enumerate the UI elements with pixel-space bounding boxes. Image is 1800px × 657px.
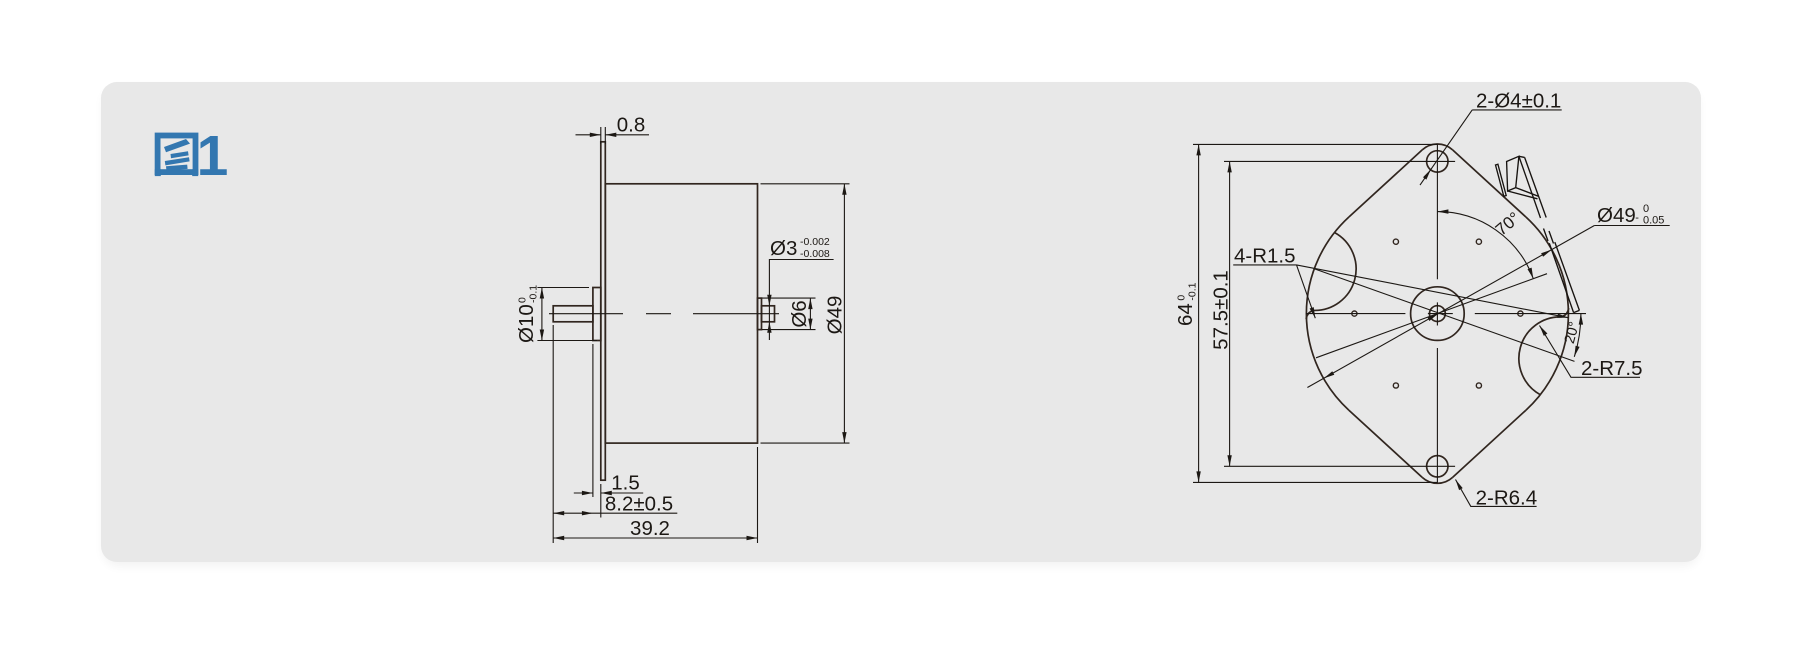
notch R7.5 right (1519, 317, 1562, 395)
2-D4 leader (1420, 110, 1562, 185)
tab break dashes (1544, 229, 1554, 244)
dim D6: dimension line (809, 298, 811, 330)
mounting hole top D4 (1427, 151, 1448, 172)
svg-text:-0.008: -0.008 (800, 248, 830, 260)
center boss circle D10 (1411, 287, 1465, 341)
svg-text:-0.002: -0.002 (800, 236, 830, 248)
svg-text:1: 1 (197, 124, 229, 188)
bottom extension lines (553, 325, 757, 543)
D49 lower crossing arrow (1324, 371, 1335, 378)
tab clip finger (1496, 164, 1507, 196)
background card (101, 82, 1701, 562)
dim D10: extension lines (537, 288, 597, 341)
D49 diameter leader line (1307, 226, 1594, 388)
1.5 arrows (outside) (582, 491, 593, 495)
front pilot boss D10 (593, 288, 601, 341)
svg-text:Ø10: Ø10 (515, 304, 538, 343)
top ear arc R6.4 (1422, 144, 1452, 150)
text D10 0/-0.1 (rotated) (515, 285, 540, 343)
svg-text:Ø3: Ø3 (770, 237, 797, 260)
tab right edge (lower) (1555, 242, 1580, 310)
vertical center line (1436, 144, 1438, 483)
dim 57.5 extension lines (1224, 161, 1455, 466)
20deg arc arrows (1579, 314, 1583, 325)
dim D3 rear: leader and dimension line (769, 260, 833, 341)
svg-text:-0.1: -0.1 (1187, 282, 1199, 300)
dim D6: extension lines (762, 298, 816, 330)
shaft circle D3 (1430, 306, 1446, 322)
axis center line (549, 313, 779, 315)
tab bottom cap (1574, 310, 1580, 312)
radial line 70deg edge (through center) (1316, 274, 1547, 358)
2-R6.4 arrow (1456, 480, 1463, 491)
svg-text:-: - (1635, 212, 1639, 224)
svg-text:2-Ø4±0.1: 2-Ø4±0.1 (1476, 90, 1561, 113)
svg-text:Ø49: Ø49 (1597, 204, 1636, 227)
flange tangent edge bottom-right (1453, 410, 1526, 477)
body circle D49 right arc (1526, 217, 1569, 410)
dim 0.8: extension lines above flange (601, 127, 606, 144)
tab clip U plate (1507, 156, 1519, 191)
0.8 arrows (590, 133, 601, 137)
svg-text:64: 64 (1174, 303, 1197, 326)
bottom ear arc R6.4 (1422, 477, 1452, 483)
rivet dot upper-right (1476, 239, 1481, 244)
R1.5 curl at left notch end (1306, 310, 1313, 319)
图 enclosure box (158, 136, 196, 173)
dim 64 extension lines (1193, 144, 1437, 482)
rivet dot upper-left (1393, 239, 1398, 244)
svg-text:8.2±0.5: 8.2±0.5 (605, 493, 673, 516)
D3 arrows (outside) (767, 295, 771, 306)
70deg dimension arc (1437, 212, 1533, 279)
D10 arrows (540, 288, 544, 299)
side view dimension texts (515, 114, 847, 541)
notch axis line 20deg (through center) (1314, 269, 1575, 362)
svg-text:Ø49: Ø49 (824, 296, 847, 335)
arrowheads, side view (540, 133, 847, 541)
horizontal center line (1306, 313, 1586, 315)
flange tangent edge top-left (1349, 150, 1422, 217)
2-R7.5 leader (1540, 326, 1641, 378)
motor body rectangle (605, 184, 757, 443)
svg-text:2-R7.5: 2-R7.5 (1581, 357, 1643, 380)
svg-text:4-R1.5: 4-R1.5 (1234, 245, 1296, 268)
D49 text underline (1594, 225, 1669, 227)
dim 57.5 dimension line (1229, 161, 1231, 466)
57.5 arrows (1227, 161, 1231, 172)
70deg arc arrows (1437, 209, 1448, 213)
dim 1.5: dimension line (574, 492, 643, 494)
rear shaft stub D3 (762, 306, 775, 322)
tab left edge (upper) (1519, 156, 1541, 218)
front output shaft D3 (553, 306, 593, 322)
dim D49 side: extension lines (761, 184, 850, 443)
4-R1.5 long branch arrow (1557, 314, 1568, 318)
R1.5 curl at right notch end (1562, 308, 1569, 317)
2-R6.4 leader (1456, 480, 1537, 507)
mounting hole bottom D4 (1427, 456, 1448, 477)
body circle D49 left arc (1306, 217, 1349, 410)
svg-text:-0.1: -0.1 (528, 285, 540, 303)
8.2 arrows (553, 511, 564, 515)
rivet dot left (1352, 311, 1357, 316)
dim D10: dimension line (541, 288, 543, 341)
D49 side arrows (842, 184, 846, 195)
svg-text:0.05: 0.05 (1643, 215, 1664, 227)
svg-text:0.8: 0.8 (617, 114, 646, 137)
D49 upper crossing arrow (1541, 250, 1552, 257)
svg-text:2-R6.4: 2-R6.4 (1476, 487, 1538, 510)
tab right edge (upper) (1525, 157, 1547, 217)
text 64 0/-0.1 (rotated) (1174, 282, 1199, 326)
dim 39.2: dimension line (553, 537, 757, 539)
figure label 图1 (blue) (155, 124, 229, 188)
notch R7.5 left (1313, 233, 1356, 311)
terminal tab assembly (1496, 156, 1580, 312)
39.2 arrows (553, 536, 564, 540)
svg-text:0: 0 (1643, 203, 1649, 215)
D6 arrows (808, 298, 812, 309)
svg-text:39.2: 39.2 (630, 517, 670, 540)
flange tangent edge top-right (1453, 150, 1526, 217)
flange tangent edge bottom-left (1349, 410, 1422, 477)
rivet dot lower-right (1476, 383, 1481, 388)
dim D49 side: dimension line (843, 184, 845, 443)
dim 0.8: dimension line (576, 134, 650, 136)
front view dimension texts (1174, 90, 1664, 510)
mounting flange plate (thin) (601, 142, 606, 480)
图 inner strokes (164, 139, 190, 171)
D49 line arrow at center (1427, 314, 1438, 321)
svg-text:57.5±0.1: 57.5±0.1 (1210, 270, 1233, 350)
4-R1.5 steep branch arrow (1310, 307, 1316, 318)
2-R7.5 arrow (1540, 326, 1548, 336)
图 bottom feet (155, 169, 161, 176)
tab left edge (lower) (1549, 243, 1573, 312)
svg-text:Ø6: Ø6 (788, 300, 811, 327)
arrowheads, front view (1196, 144, 1583, 490)
dim 8.2: dimension line (553, 512, 677, 514)
tab clip bottom bar (1508, 188, 1539, 199)
dim 64 dimension line (1198, 144, 1200, 482)
tab top cap (1519, 156, 1525, 157)
rivet dot lower-left (1393, 383, 1398, 388)
2-D4 leader arrow (1423, 169, 1431, 179)
4-R1.5 leader with two branches (1233, 265, 1568, 318)
svg-text:1.5: 1.5 (611, 472, 640, 495)
rivet dot right (1518, 311, 1523, 316)
20deg dimension arc (1574, 314, 1581, 357)
rear boss D6 (758, 298, 762, 330)
64 arrows (1196, 144, 1200, 155)
